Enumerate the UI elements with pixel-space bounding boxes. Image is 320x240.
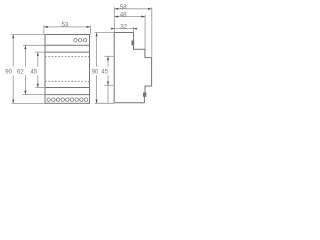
svg-text:62: 62: [17, 68, 24, 75]
svg-text:45: 45: [101, 68, 108, 75]
svg-text:90: 90: [92, 68, 99, 75]
svg-text:32: 32: [120, 23, 127, 30]
svg-text:58: 58: [120, 4, 127, 11]
svg-text:90: 90: [5, 68, 12, 75]
svg-text:53: 53: [62, 21, 69, 28]
svg-text:48: 48: [120, 12, 127, 19]
svg-text:45: 45: [30, 68, 37, 75]
